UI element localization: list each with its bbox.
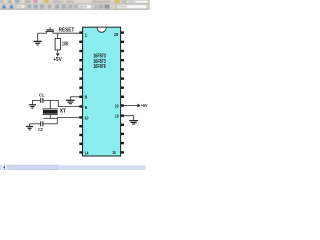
ground (pin 8 VSS) (66, 97, 75, 104)
wire pin 20 VDD to +5V (124, 105, 138, 107)
svg-text:XT: XT (60, 108, 66, 114)
wire OSC2 net (crystal to pin 10 and C2) (43, 117, 57, 119)
wire ground to button (38, 32, 47, 34)
wire button to pin 1 (RESET net) (53, 32, 80, 34)
wire C2 to ground (30, 123, 41, 125)
wire pin 19 VSS to ground (124, 116, 134, 121)
svg-text:10: 10 (85, 115, 89, 120)
svg-text:19: 19 (115, 114, 119, 119)
svg-text:14: 14 (85, 150, 89, 155)
svg-text:20: 20 (115, 103, 119, 108)
svg-text:C1: C1 (39, 92, 44, 97)
svg-text:RESET: RESET (59, 28, 75, 34)
wire resistor to +5V (57, 50, 59, 54)
ground (reset button) (34, 33, 42, 45)
capacitor C1 (41, 98, 43, 103)
labels (38, 28, 148, 156)
svg-text:16F876: 16F876 (93, 64, 106, 70)
power +5V (right) arrow (138, 104, 141, 108)
crystal XT (42, 109, 58, 115)
wire crystal bottom stem (49, 115, 51, 118)
ground (pin 19 VSS) (129, 121, 138, 124)
svg-text:10K: 10K (62, 42, 69, 48)
toolbar row1 icon blobs (1, 0, 149, 3)
resistor 10K (55, 38, 60, 50)
page background (0, 0, 150, 170)
chip left pin stubs (79, 31, 82, 153)
toolbar row2 icons (2, 4, 147, 8)
toolbar background (0, 0, 150, 10)
svg-text:C2: C2 (38, 127, 43, 132)
horizontal scrollbar (0, 165, 146, 170)
notch (97, 28, 106, 33)
microcontroller U1 PIC16F870/873/876 body (83, 27, 121, 156)
svg-text:15: 15 (112, 150, 116, 155)
power +5V (below resistor) arrow (56, 53, 60, 56)
svg-text:+5V: +5V (141, 103, 148, 109)
push button (reset) (46, 27, 55, 33)
ground (C2, oscillator bottom left) (26, 124, 33, 130)
node RESET junction to resistor (57, 33, 59, 38)
capacitor C2 (41, 121, 43, 126)
svg-text:+5V: +5V (53, 57, 62, 63)
svg-text:85%: 85% (80, 5, 87, 9)
chip right pin stubs (121, 31, 124, 153)
ground (C1, oscillator left) (29, 100, 36, 108)
wire ground to C1 (32, 99, 40, 101)
node junction to crystal top (49, 100, 51, 108)
wire C1 to corner (OSC1 net) (43, 100, 79, 106)
svg-text:28: 28 (114, 32, 118, 37)
wire pin 8 VSS to ground (70, 96, 79, 98)
pin number labels (85, 32, 119, 155)
